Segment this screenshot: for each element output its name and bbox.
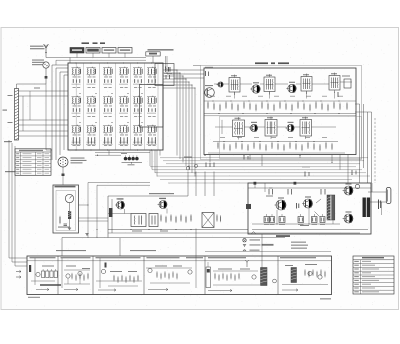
antenna ANT telescopic — [44, 44, 49, 57]
wire FI block bottom drops — [210, 155, 348, 184]
legend arrow symbol — [243, 249, 260, 251]
platine MF oscillator section frame — [108, 196, 188, 238]
clavier section 3 OC — [96, 258, 142, 291]
label battery — [58, 227, 70, 228]
rotary switch S1 commutateur — [58, 157, 68, 167]
wires ferrite bar to HF block — [19, 91, 69, 136]
BF edge connector 2 — [294, 182, 297, 185]
HF tuner cell row2 col2 coil L + trimmer CT — [87, 96, 96, 117]
bloc HF tuner outline — [68, 63, 163, 150]
junction dots on HF buses — [75, 62, 152, 150]
transistor TR8 output 1 — [343, 183, 354, 195]
MF right ticks — [217, 214, 221, 222]
wires HF to FI input — [166, 70, 205, 78]
HF tuner cell row3 col6 coil L + trimmer CT — [147, 125, 156, 146]
IF transformer T3 — [301, 74, 312, 95]
driver transformer T-drv hatched — [327, 195, 335, 220]
wire bundle right margin — [355, 104, 375, 183]
HF tuner cell row3 col1 coil L + trimmer CT — [72, 125, 81, 146]
transistor TR4 (2nd IF amp) — [286, 82, 296, 93]
BF hanging ticks from top bus — [266, 188, 325, 197]
table GAMMES wave ranges — [15, 149, 51, 176]
wire cadre down to ferrite bar — [45, 79, 47, 84]
legend lamp symbol — [243, 239, 260, 242]
IF transformer T5 (ratio det) — [233, 117, 245, 140]
alim capacitor C-alim — [64, 224, 68, 225]
HF tuner cell row3 col5 coil L + trimmer CT — [133, 125, 142, 146]
label ANTENNE TELESCOPIQUE — [30, 46, 45, 50]
FI row1 wiring — [214, 82, 352, 99]
FM front-end transistor TR-FM — [205, 85, 215, 97]
left wires to strip — [9, 140, 27, 266]
BF bottom bus and wiring — [252, 200, 368, 230]
margin tick left edge — [3, 110, 8, 111]
oscillator sub-block outline — [155, 64, 174, 86]
BF input component dark — [246, 204, 251, 209]
wires BF to speaker — [368, 183, 386, 215]
label oscillateur — [149, 193, 174, 194]
transistor TR2b (mixer) — [216, 82, 223, 87]
HF tuner cell row2 col5 coil L + trimmer CT — [133, 96, 142, 117]
transistor TR7 driver — [302, 196, 313, 208]
strip input arrows — [16, 270, 21, 278]
transistor TR6b — [285, 122, 294, 132]
MF component box 2 — [149, 214, 158, 227]
ferrite frame antenna symbol cadre — [43, 62, 49, 76]
BF diagonal wires — [315, 199, 322, 217]
meter M1 — [65, 194, 73, 211]
transistor TR9 output 2 — [343, 211, 354, 223]
oscillator padder wires — [95, 150, 150, 156]
HF tuner cell row1 col2 coil L + trimmer CT — [87, 67, 96, 88]
ferrite rod antenna bar — [15, 84, 47, 140]
transistor TR1 — [115, 198, 125, 209]
clavier header labels — [30, 257, 317, 258]
coupling capacitor C-BF — [355, 184, 359, 188]
HF tuner cell row1 col6 coil L + trimmer CT — [147, 67, 156, 88]
label TR2 — [159, 198, 166, 199]
speaker HP — [386, 188, 391, 204]
HF range selector box 1 — [70, 48, 84, 54]
platine BF outline — [248, 183, 371, 234]
wire drops to clavier strip — [62, 229, 196, 257]
MF dark coupling element — [109, 208, 113, 217]
title BLOC HF MA — [82, 42, 106, 44]
alim resistor R-alim — [59, 217, 61, 223]
caption PLATINE BF — [276, 235, 290, 237]
transistor TR2 — [158, 198, 168, 209]
label CADRE FERRITE — [32, 60, 45, 66]
transistor TR5 (AF pre) — [249, 122, 258, 132]
clavier section 4 BE — [146, 256, 196, 291]
FI row1 resistor bank — [204, 101, 356, 115]
clavier section 6 arret — [282, 264, 328, 291]
HF tuner cell row1 col1 coil L + trimmer CT — [72, 67, 81, 88]
connector on BF bottom edge — [252, 232, 256, 234]
HF tuner cell row2 col6 coil L + trimmer CT — [147, 96, 156, 117]
clavier section 2 PO — [62, 258, 90, 291]
parts list table montage — [353, 256, 394, 294]
wire switch down — [62, 167, 64, 174]
FI row2 wiring — [215, 120, 336, 134]
wire above strip — [205, 251, 331, 253]
MF wiring and bottom bus — [62, 209, 360, 238]
label COMMUTATEUR ROTATIF — [71, 158, 87, 164]
labels on gamme lines — [8, 88, 41, 124]
IF transformer T2 — [264, 74, 275, 95]
BF small capacitor pair — [297, 203, 299, 209]
transistor TR6 BF preamp — [275, 197, 287, 210]
wire drops to MF platine — [188, 172, 214, 197]
label TR1 — [117, 198, 124, 199]
HF sub-block outline right section — [140, 85, 164, 128]
IF transformer T4 — [329, 73, 340, 94]
connector under switch — [62, 174, 65, 177]
note below strip left — [28, 297, 40, 298]
IF transformer T1 — [229, 75, 240, 96]
clavier section 1 GO — [29, 258, 61, 291]
label CONVERTISSEUR MA/OC — [148, 49, 174, 50]
ground alim — [68, 227, 71, 229]
converter box MA — [146, 52, 160, 56]
HF tuner cell row3 col2 coil L + trimmer CT — [87, 125, 96, 146]
note above strip right — [130, 250, 156, 251]
margin note lower — [5, 171, 15, 172]
HF oscillator cell — [164, 67, 172, 80]
wire FI outer boundary leader — [193, 65, 201, 67]
HF tuner cell row1 col4 coil L + trimmer CT — [119, 67, 128, 88]
IF transformer T7 — [300, 117, 312, 140]
legend notes text lines — [291, 242, 308, 249]
alimentation power supply box — [53, 185, 79, 233]
FI mid bus line — [204, 115, 356, 117]
FI row1 labels — [210, 95, 343, 98]
strip footer reference — [320, 298, 331, 299]
FI FM sub-block boundary — [220, 117, 362, 159]
BF top bus — [248, 183, 371, 192]
platine FI outer boundary — [201, 66, 362, 160]
wire antenna to selector bus — [56, 59, 146, 61]
HF tuner cell row1 col3 coil L + trimmer CT — [103, 67, 112, 88]
trimmer capacitor group CT1-CT4 (padders) — [121, 153, 142, 165]
HF tuner cell row3 col4 coil L + trimmer CT — [119, 125, 128, 146]
wire bundle left of HF block — [46, 65, 68, 160]
HF range selector box 3 — [102, 48, 116, 54]
BF edge connector 1 — [254, 182, 257, 185]
ground mid-left — [85, 233, 88, 235]
note above strip left — [56, 250, 86, 251]
wire bus under selector row — [46, 53, 167, 74]
FI input components — [205, 67, 213, 76]
clavier keyboard strip outline — [27, 256, 332, 295]
HF tuner cell row2 col4 coil L + trimmer CT — [119, 96, 128, 117]
wire bundle HF to FI vertical — [163, 70, 196, 177]
HF tuner row4 tick band — [71, 140, 81, 144]
bus junction components — [183, 155, 333, 174]
harness band components right — [302, 167, 356, 177]
HF range selector box 4 — [118, 48, 132, 54]
output transformer T-out — [363, 198, 371, 218]
clavier header underline — [27, 260, 332, 262]
scan speckle texture — [3, 29, 397, 307]
electrolytic capacitor C-out — [379, 200, 381, 210]
connector to cadre — [45, 76, 48, 79]
title PLATINE FI MF AM — [255, 62, 289, 64]
HF tuner cell row2 col1 coil L + trimmer CT — [72, 96, 81, 117]
legend ground symbol — [243, 244, 274, 247]
FI bottom hanging ticks — [244, 155, 249, 160]
HF tuner cell row3 col3 coil L + trimmer CT — [103, 125, 112, 146]
HF vertical column wires — [76, 63, 158, 150]
clavier section dividers — [58, 256, 278, 295]
platine FI MF AM outline — [204, 68, 356, 155]
FI right side components — [338, 76, 351, 98]
HF tuner cell row1 col5 coil L + trimmer CT — [133, 67, 142, 88]
FI row2 labels — [220, 136, 327, 139]
FI row2 resistor bank — [208, 141, 345, 153]
MF transformer box with cross — [202, 213, 214, 228]
MF component box 1 — [131, 214, 146, 227]
BF electrolytic row — [264, 214, 325, 225]
wire bus harness horizontal band — [150, 150, 370, 183]
HF tuner cell row2 col3 coil L + trimmer CT — [103, 96, 112, 117]
transistor TR3 (1st IF amp) — [250, 82, 260, 93]
power transistor TR-alim — [68, 211, 71, 227]
wire alim to MF section — [79, 183, 151, 239]
clavier section 5 FM — [206, 234, 276, 292]
IF transformer T6 — [265, 117, 277, 140]
MF resistor row — [161, 214, 191, 223]
margin note 30-1 — [4, 141, 12, 142]
HF range selector box 2 — [86, 48, 100, 54]
